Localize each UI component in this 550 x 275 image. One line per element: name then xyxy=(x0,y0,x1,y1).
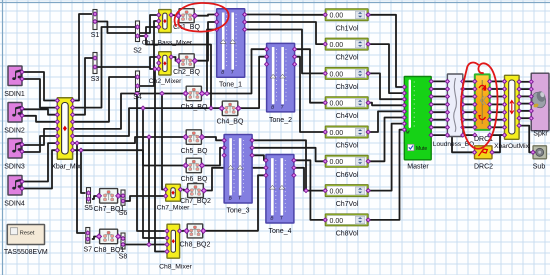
svg-text:Mute: Mute xyxy=(416,146,427,152)
wire SDIN4.R to Xbar_Mix.in8 xyxy=(22,150,58,188)
wire DRC1.out5 to XbarOutMix.in5 xyxy=(490,111,505,113)
volume spinbox Ch1Vol xyxy=(323,9,370,21)
wire DRC1.out4 to XbarOutMix.in4 xyxy=(490,103,505,105)
wire Loudness_BQ.out6 to DRC1.in6 xyxy=(463,119,475,121)
junction J ch3 tap xyxy=(205,91,209,95)
wire SDIN1.R to Xbar_Mix.in2 xyxy=(22,79,58,108)
dynamic range compressor DRC1 xyxy=(473,74,492,137)
volume spinbox Ch2Vol xyxy=(323,38,370,50)
master volume block Master xyxy=(402,77,433,160)
loudness biquad Loudness_BQ xyxy=(445,74,465,137)
wire SDIN3.R to Xbar_Mix.in6 xyxy=(22,136,58,152)
wire SDIN2.R to Xbar_Mix.in4 xyxy=(22,116,58,122)
biquad Ch6_BQ xyxy=(183,158,205,173)
wire bass tap2 to Ch8_Mixer.in2 xyxy=(143,108,165,238)
wire Loudness_BQ.out2 to DRC1.in2 xyxy=(463,88,475,90)
SDIN1 input block xyxy=(8,66,24,86)
wire Ch1_Bass_Mixer to Ch1_BQ xyxy=(172,14,178,17)
wire Xbar_Mix.out6 to Ch4_BQ xyxy=(73,108,221,136)
wire S8 to Ch8_Mixer.in3 xyxy=(125,244,165,246)
SDIN3 input block xyxy=(8,139,24,159)
junction J out8/S5 xyxy=(79,148,83,152)
wire Master.out3 to Loudness_BQ.in3 xyxy=(431,96,447,98)
wire Ch4_BQ to Tone_2.in2 xyxy=(241,57,266,108)
wire S7 to Ch8_BQ1 xyxy=(92,237,98,240)
wire SDIN1.L to Xbar_Mix.in1 xyxy=(22,72,58,101)
junction J bass3 xyxy=(147,135,151,139)
wire Loudness_BQ.out1 to DRC1.in1 xyxy=(463,80,475,82)
volume spinbox Ch6Vol xyxy=(323,155,370,167)
wire Loudness_BQ.out8 to DRC1.in8 xyxy=(463,134,475,136)
svg-text:Ch2_BQ: Ch2_BQ xyxy=(173,69,200,76)
wire XbarOutMix.out2 to Spkr.in2 xyxy=(519,88,531,90)
wire SDIN3.L to Xbar_Mix.in5 xyxy=(22,129,58,145)
wire S5 to Ch7_BQ1 xyxy=(92,196,97,199)
wire Tone_4.out2 to Ch7Vol xyxy=(295,168,324,191)
wire S4 to Ch1_Bass_Mixer.in2 xyxy=(140,21,158,86)
wire Tone_3.out1 drop xyxy=(254,140,307,190)
svg-text:S7: S7 xyxy=(84,247,93,254)
svg-text:Spkr: Spkr xyxy=(533,130,548,137)
svg-text:0.00: 0.00 xyxy=(330,189,344,196)
svg-text:Ch5Vol: Ch5Vol xyxy=(336,143,359,150)
wire XbarOutMix.out5 to Spkr.in5 xyxy=(519,110,531,112)
tone control Tone_4 xyxy=(264,155,296,224)
wire DRC2 to XbarOutMix xyxy=(493,135,504,152)
volume spinbox Ch3Vol xyxy=(323,67,370,79)
subwoofer output Sub xyxy=(531,146,547,159)
svg-text:Ch7_BQ1: Ch7_BQ1 xyxy=(94,206,125,213)
svg-text:Reset: Reset xyxy=(20,230,35,236)
wire Ch7Vol to Master.in7 xyxy=(369,124,404,191)
junction J bass4 xyxy=(153,67,157,71)
wire Ch5Vol to Master.in5 xyxy=(369,111,404,132)
svg-text:Ch8_BQ2: Ch8_BQ2 xyxy=(180,242,211,249)
switch S1 xyxy=(93,10,97,30)
svg-text:Tone_4: Tone_4 xyxy=(269,228,292,235)
wire Loudness_BQ.out7 to DRC1.in7 xyxy=(463,126,475,128)
svg-text:Ch3Vol: Ch3Vol xyxy=(336,84,359,91)
wire Ch4Vol to Master.in4 xyxy=(369,103,404,106)
wire Tone_2.out1 to Ch4Vol xyxy=(295,49,324,102)
svg-text:S1: S1 xyxy=(91,32,100,39)
wire Ch6_BQ to Tone_3.in2 xyxy=(203,148,223,166)
biquad Ch8_BQ1 xyxy=(96,229,121,244)
svg-text:B: B xyxy=(270,216,273,221)
svg-text:0.00: 0.00 xyxy=(330,101,344,108)
svg-text:Ch1Vol: Ch1Vol xyxy=(336,25,359,32)
svg-text:Ch7_BQ2: Ch7_BQ2 xyxy=(180,198,211,205)
wire Xbar_Mix.out7 to Ch5_BQ xyxy=(73,137,185,143)
wire DRC1.out1 to XbarOutMix.in1 xyxy=(490,80,505,82)
wire Tone_3.out2 to Ch6Vol xyxy=(254,148,325,162)
wire Loudness_BQ.out4 to DRC1.in4 xyxy=(463,103,475,105)
biquad Ch7_BQ2 xyxy=(184,184,206,198)
output crossbar XbarOutMix xyxy=(502,75,521,139)
wire Ch2_BQ to Tone_1.in2 xyxy=(196,22,216,61)
mixer Ch2_Mixer xyxy=(157,52,174,75)
speaker output Spkr xyxy=(529,73,549,131)
red annotation ellipse around DRC1 xyxy=(461,63,498,149)
biquad Ch7_BQ1 xyxy=(96,189,121,204)
wire Master.out4 to Loudness_BQ.in4 xyxy=(431,103,447,105)
wire Ch8_Mixer to Ch8_BQ2 xyxy=(181,230,186,232)
wire bass tap3 drop xyxy=(148,137,150,245)
svg-text:Master: Master xyxy=(407,164,429,171)
wire SDIN4.L to Xbar_Mix.in7 xyxy=(22,143,58,181)
biquad Ch5_BQ xyxy=(183,130,205,145)
SDIN2 input block xyxy=(8,103,24,123)
wire Ch8_BQ2 to Tone_4.in3 xyxy=(204,175,265,231)
switch S7 xyxy=(86,228,90,244)
svg-text:TAS5508EVM: TAS5508EVM xyxy=(4,249,48,256)
svg-text:0.00: 0.00 xyxy=(330,130,344,137)
svg-text:Ch6Vol: Ch6Vol xyxy=(336,172,359,179)
SDIN4 input block xyxy=(8,176,24,196)
svg-text:Ch1_Bass_Mixer: Ch1_Bass_Mixer xyxy=(142,40,193,47)
wire Ch3_BQ to Tone_2.in1 xyxy=(203,49,265,93)
wire Xbar_Mix.out8 to Ch6_BQ xyxy=(73,150,185,165)
wire Ch2_Mixer.in3 stub xyxy=(150,67,158,69)
switch S8 xyxy=(121,233,125,249)
wire Master.out5 to Loudness_BQ.in5 xyxy=(431,111,447,113)
wire S3 to Ch2_Mixer.in1 xyxy=(97,57,158,67)
svg-text:S8: S8 xyxy=(119,254,128,261)
junction J S2 branch xyxy=(144,34,148,38)
switch S3 xyxy=(93,53,97,74)
wire XbarOutMix to Sub xyxy=(519,126,533,153)
svg-text:B: B xyxy=(221,70,224,75)
wire branch out7 to S7 xyxy=(77,143,85,233)
wire DRC1.out7 to XbarOutMix.in7 xyxy=(490,126,505,128)
wire Master.out1 to Loudness_BQ.in1 xyxy=(431,80,447,82)
wire Ch7_BQ2 to Tone_4.in2 xyxy=(205,168,265,191)
wire XbarOutMix.out4 to Spkr.in4 xyxy=(519,103,531,105)
wire Ch1Vol to Master.in1 xyxy=(369,15,404,87)
wire Xbar_Mix.out2 to S2 xyxy=(73,27,135,108)
wire Tone_4.out1 to Ch8Vol xyxy=(295,160,324,220)
wire Tone_3.out3 to Tone_4.in1 xyxy=(254,155,265,160)
junction J S8 row xyxy=(147,242,151,246)
switch S4 xyxy=(135,71,139,92)
wire Ch5_BQ to Tone_3.in1 xyxy=(203,137,223,140)
wire Loudness_BQ.out5 to DRC1.in5 xyxy=(463,111,475,113)
mixer Ch1_Bass_Mixer xyxy=(157,10,174,33)
wire branch out8 to S5 xyxy=(81,150,86,193)
junction J out7/S7 xyxy=(75,141,79,145)
svg-text:Ch7Vol: Ch7Vol xyxy=(336,201,359,208)
crossbar mixer Xbar_Mix xyxy=(55,98,75,160)
svg-text:Ch4_BQ: Ch4_BQ xyxy=(217,119,244,126)
wire Tone_2.out2 to Ch5Vol xyxy=(295,57,324,132)
svg-text:SDIN2: SDIN2 xyxy=(4,128,25,135)
wire Master.out8 to Loudness_BQ.in8 xyxy=(431,134,447,136)
svg-text:Ch8Vol: Ch8Vol xyxy=(336,230,359,237)
wire Ch6Vol to Master.in6 xyxy=(369,118,404,162)
wire Ch8Vol to Master.in8 xyxy=(369,130,404,220)
wire Ch7_BQ1 to S6 xyxy=(120,195,121,197)
svg-text:Ch7_Mixer: Ch7_Mixer xyxy=(157,205,191,212)
biquad Ch4_BQ xyxy=(219,101,241,116)
svg-text:XbarOutMix: XbarOutMix xyxy=(494,143,530,150)
wire Xbar_Mix.out1 to S1 xyxy=(73,14,92,101)
svg-text:Ch2Vol: Ch2Vol xyxy=(336,55,359,62)
biquad Ch3_BQ xyxy=(183,86,205,101)
junction J ch7vol xyxy=(304,188,308,192)
svg-text:Tone_3: Tone_3 xyxy=(227,208,250,215)
tone control Tone_3 xyxy=(222,135,254,204)
wire Master.out7 to Loudness_BQ.in7 xyxy=(431,126,447,128)
volume spinbox Ch8Vol xyxy=(323,214,370,226)
wire Loudness_BQ to DRC2 xyxy=(452,137,474,153)
svg-text:0.00: 0.00 xyxy=(330,159,344,166)
wire Xbar_Mix.out4 to S4 xyxy=(73,77,135,122)
junction J bass1 xyxy=(135,91,139,95)
svg-text:0.00: 0.00 xyxy=(330,218,344,225)
switch S5 xyxy=(86,188,90,203)
reset control TAS5508EVM xyxy=(7,225,44,245)
svg-text:Ch5_BQ: Ch5_BQ xyxy=(181,148,208,155)
tone control Tone_1 xyxy=(215,9,247,78)
wire Ch2Vol to Master.in2 xyxy=(369,44,404,93)
wire DRC1.out2 to XbarOutMix.in2 xyxy=(490,88,505,90)
svg-text:Tone_1: Tone_1 xyxy=(219,82,242,89)
compressor DRC2 xyxy=(472,146,494,159)
wire XbarOutMix.out3 to Spkr.in3 xyxy=(519,95,531,97)
svg-text:SDIN4: SDIN4 xyxy=(4,201,25,208)
wire S2 to Ch1_Bass_Mixer.in3 xyxy=(140,27,158,36)
wire tap to Ch7_Mixer.in1 xyxy=(162,94,165,190)
switch S2 xyxy=(135,21,139,42)
svg-text:Ch8_Mixer: Ch8_Mixer xyxy=(159,264,193,271)
wire Tone_1.out1 to Ch1Vol xyxy=(246,14,325,16)
svg-text:0.00: 0.00 xyxy=(330,71,344,78)
wire S2 branch to Ch4_BQ row xyxy=(146,36,211,108)
volume spinbox Ch7Vol xyxy=(323,185,370,197)
wire S6 to Ch7_Mixer.in2 xyxy=(125,196,165,201)
wire Ch7_Mixer to Ch7_BQ2 xyxy=(182,190,187,191)
mixer Ch7_Mixer xyxy=(164,184,183,201)
wire Ch3Vol to Master.in3 xyxy=(369,73,404,99)
wire S1 to Ch1_Bass_Mixer.in1 xyxy=(97,15,158,33)
svg-text:B: B xyxy=(229,196,232,201)
svg-text:Ch3_BQ: Ch3_BQ xyxy=(181,104,208,111)
wire DRC1.out8 to XbarOutMix.in8 xyxy=(490,134,505,136)
wire XbarOutMix.out1 to Spkr.in1 xyxy=(519,81,531,83)
svg-text:Ch6_BQ: Ch6_BQ xyxy=(181,176,208,183)
junction J ch4 row xyxy=(209,106,213,110)
wire bass tap1 to Ch8_Mixer.in1 xyxy=(137,94,165,232)
svg-text:SDIN1: SDIN1 xyxy=(4,91,25,98)
tone control Tone_2 xyxy=(264,43,296,112)
svg-text:0.00: 0.00 xyxy=(330,42,344,49)
wire Master.out2 to Loudness_BQ.in2 xyxy=(431,88,447,90)
wire DRC1.out3 to XbarOutMix.in3 xyxy=(490,96,505,98)
wire Tone_1.out2 to Ch2Vol xyxy=(246,22,325,44)
biquad Ch1_BQ xyxy=(176,9,198,23)
biquad Ch8_BQ2 xyxy=(184,224,206,238)
svg-text:DRC2: DRC2 xyxy=(474,164,493,171)
svg-text:Sub: Sub xyxy=(533,164,546,171)
red annotation ellipse around Ch1_BQ xyxy=(175,3,229,32)
wire bass tap4 to Ch8_Mixer.in4 xyxy=(155,69,165,252)
wire XbarOutMix.out6 to Spkr.in6 xyxy=(519,117,531,119)
svg-text:S5: S5 xyxy=(84,205,93,212)
svg-text:Tone_2: Tone_2 xyxy=(269,117,292,124)
svg-text:SDIN3: SDIN3 xyxy=(4,164,25,171)
volume spinbox Ch4Vol xyxy=(323,97,370,109)
biquad Ch2_BQ xyxy=(176,54,198,68)
wire Ch2_Mixer to Ch2_BQ xyxy=(172,57,178,61)
wire DRC1.out6 to XbarOutMix.in6 xyxy=(490,119,505,121)
volume spinbox Ch5Vol xyxy=(323,126,370,138)
svg-text:Ch8_BQ1: Ch8_BQ1 xyxy=(94,247,125,254)
svg-text:Ch4Vol: Ch4Vol xyxy=(336,113,359,120)
svg-text:Xbar_Mix: Xbar_Mix xyxy=(51,163,81,170)
svg-text:B: B xyxy=(271,104,274,109)
svg-text:S4: S4 xyxy=(133,94,142,101)
switch S6 xyxy=(121,190,125,205)
svg-text:0.00: 0.00 xyxy=(330,13,344,20)
svg-text:S2: S2 xyxy=(133,48,142,55)
wire Tone_1.in3 tap xyxy=(207,30,215,94)
wire Loudness_BQ.out3 to DRC1.in3 xyxy=(463,96,475,98)
wire Ch1_BQ to Tone_1.in1 xyxy=(196,15,216,16)
svg-text:Ch2_Mixer: Ch2_Mixer xyxy=(149,78,183,85)
mixer Ch8_Mixer xyxy=(165,224,182,258)
svg-text:S3: S3 xyxy=(91,76,100,83)
wire Ch8_BQ1 to S8 xyxy=(120,236,121,238)
wire Xbar_Mix.out5 to Ch3_BQ xyxy=(73,94,185,129)
wire Master.out6 to Loudness_BQ.in6 xyxy=(431,119,447,121)
junction J ch7 tap xyxy=(160,91,164,95)
wire Xbar_Mix.out3 to S3 xyxy=(73,58,93,115)
wire Tone_1.out3 to Ch3Vol xyxy=(246,30,325,74)
junction J bass2 xyxy=(141,106,145,110)
wire SDIN2.L to Xbar_Mix.in3 xyxy=(22,109,58,114)
